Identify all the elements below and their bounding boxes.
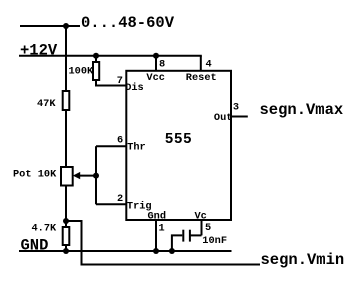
svg-text:Out: Out [214, 112, 233, 124]
wire pot bottom to 4.7K [65, 186, 67, 228]
svg-text:GND: GND [21, 237, 49, 255]
svg-text:4.7K: 4.7K [32, 223, 58, 235]
wire top rail 0...48-60V [20, 25, 80, 27]
wire GND rail [19, 250, 232, 252]
node junction dot wiper [93, 173, 99, 179]
svg-text:Vc: Vc [195, 210, 207, 222]
node junction dot top rail [63, 23, 69, 29]
resistor R2 47K body [63, 91, 70, 110]
node junction dot 4.7K bottom [63, 248, 69, 254]
node junction dot pot bottom [63, 218, 69, 224]
svg-text:10nF: 10nF [202, 235, 227, 247]
svg-text:4: 4 [206, 59, 212, 71]
wire 4.7K bottom to GND rail [65, 245, 67, 251]
capacitor C1 plates [182, 230, 184, 242]
svg-text:6: 6 [117, 134, 123, 146]
wire pin 8 Vcc [155, 56, 157, 71]
wire pot wiper [78, 175, 96, 177]
node junction dot pin1 gnd [153, 248, 159, 254]
svg-text:Gnd: Gnd [148, 211, 167, 223]
wire pin 6 Thr [96, 145, 126, 147]
svg-text:47K: 47K [37, 98, 56, 110]
potentiometer P1 wiper arrow [73, 172, 80, 179]
wire pin 4 Reset [200, 56, 202, 71]
svg-text:3: 3 [233, 102, 239, 114]
svg-text:Reset: Reset [186, 72, 217, 84]
node junction dot 100K top [93, 53, 99, 59]
wire vertical pin6 to pin2 [95, 146, 97, 204]
wire 100K top lead [95, 56, 97, 62]
svg-text:555: 555 [165, 132, 192, 148]
wire branch to segn.Vmin [66, 221, 260, 265]
svg-text:1: 1 [159, 223, 165, 235]
svg-text:segn.Vmin: segn.Vmin [261, 251, 345, 269]
svg-text:Vcc: Vcc [146, 72, 165, 84]
svg-text:2: 2 [117, 193, 123, 205]
svg-text:Thr: Thr [127, 141, 146, 153]
svg-text:Pot 10K: Pot 10K [13, 169, 57, 181]
resistor R3 4.7K body [63, 227, 70, 245]
svg-text:segn.Vmax: segn.Vmax [260, 101, 344, 119]
node junction dot pin8 [153, 53, 159, 59]
op 555 U1 box [126, 71, 231, 220]
wire 100K bottom lead to pin 7 [96, 80, 126, 86]
svg-text:100K: 100K [69, 66, 95, 78]
wire pin 5 Vc [201, 220, 203, 235]
wire vertical from top rail to 47K [65, 26, 67, 91]
svg-text:+12V: +12V [20, 42, 58, 60]
node junction dot cap gnd [169, 248, 175, 254]
resistor R1 100K body [93, 62, 99, 80]
capacitor C1 left lead [172, 235, 182, 251]
svg-text:8: 8 [159, 59, 165, 71]
svg-text:5: 5 [205, 222, 211, 234]
capacitor C1 right lead [190, 234, 202, 236]
svg-text:7: 7 [117, 75, 123, 87]
wire pin 1 Gnd [155, 220, 157, 251]
svg-text:0...48-60V: 0...48-60V [81, 14, 175, 32]
wire 47K bottom to pot [65, 110, 67, 167]
svg-text:Dis: Dis [125, 82, 144, 94]
wire pin 3 Out stub [231, 116, 248, 118]
wire +12V rail [19, 55, 202, 57]
potentiometer P1 body [61, 167, 73, 186]
wire pin 2 Trig [96, 203, 126, 205]
